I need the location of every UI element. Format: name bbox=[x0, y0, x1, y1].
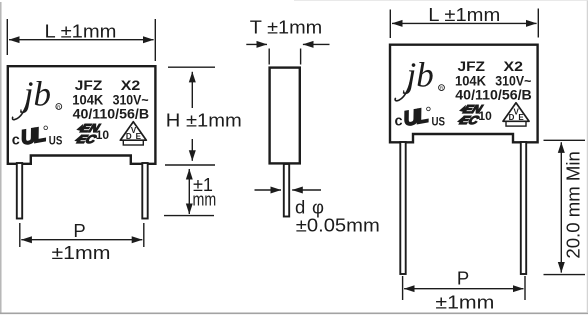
svg-text:±0.05mm: ±0.05mm bbox=[296, 215, 380, 236]
svg-text:P: P bbox=[73, 220, 85, 241]
svg-text:±1mm: ±1mm bbox=[52, 242, 111, 263]
svg-text:T ±1mm: T ±1mm bbox=[250, 17, 323, 38]
svg-text:L ±1mm: L ±1mm bbox=[45, 21, 117, 42]
svg-text:L ±1mm: L ±1mm bbox=[428, 4, 500, 25]
svg-text:20.0 mm Min: 20.0 mm Min bbox=[562, 151, 583, 259]
svg-text:H ±1mm: H ±1mm bbox=[166, 110, 242, 131]
svg-text:P: P bbox=[457, 267, 469, 288]
svg-text:mm: mm bbox=[193, 189, 217, 209]
svg-text:±1mm: ±1mm bbox=[435, 292, 494, 313]
